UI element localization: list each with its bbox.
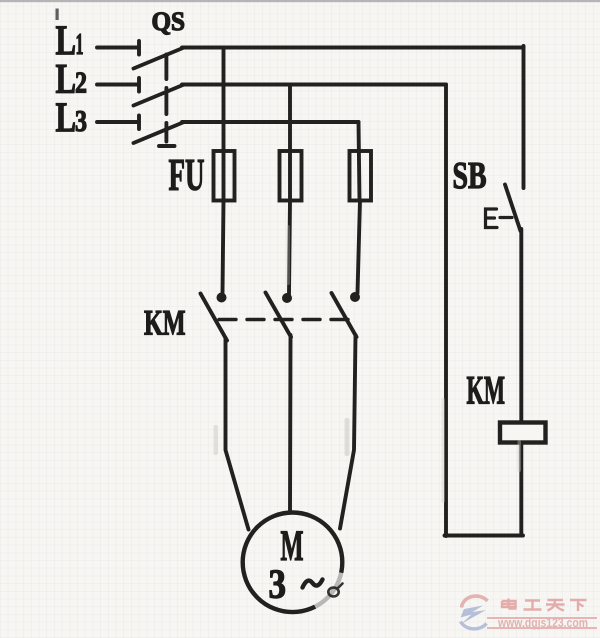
scan smudges (214, 225, 522, 503)
label L3 (56, 96, 88, 142)
wire fuse 3 to contact (358, 200, 361, 293)
wire contact 3 to motor (340, 335, 356, 529)
svg-text:FU: FU (169, 150, 205, 200)
fuse FU3 (350, 151, 372, 201)
wire L3 bus (182, 120, 359, 124)
KM main contact 1 terminal dot (217, 293, 227, 303)
QS blade pole 2 (134, 85, 185, 106)
wire contact 1 to motor (226, 338, 249, 530)
wire L2 feed (97, 83, 139, 87)
coil KM label (467, 368, 506, 413)
QS blade pole 3 (134, 122, 185, 143)
motor M (243, 513, 343, 613)
label L2 (56, 57, 88, 103)
svg-text:L: L (56, 96, 77, 142)
wire fuse 1 to contact (223, 200, 224, 293)
wire phase 2 drop to fuse (288, 85, 292, 201)
coil KM (500, 423, 546, 443)
KM main contact 3 blade (332, 293, 357, 337)
switch QS label (152, 7, 186, 36)
QS fixed contact L3 (137, 116, 141, 130)
label L1 (56, 19, 84, 65)
wire L2 bus drop (control left) (444, 85, 448, 537)
wire L1 feed (97, 46, 139, 50)
scan edge (0, 0, 600, 2)
KM main contact 3 terminal dot (350, 292, 360, 302)
wire fuse 2 to contact (289, 200, 290, 294)
button SB actuator (486, 209, 513, 228)
svg-text:www.dgjs123.com: www.dgjs123.com (497, 616, 588, 630)
watermark (461, 596, 598, 630)
wire phase 1 drop to fuse (222, 48, 226, 201)
svg-text:KM: KM (467, 368, 506, 413)
fuse FU label (169, 150, 205, 200)
QS fixed contact L1 (137, 41, 141, 55)
wire SB to coil (519, 229, 523, 535)
wire phase 3 drop to fuse (359, 122, 360, 200)
svg-text:2: 2 (75, 65, 87, 100)
button SB label (453, 155, 487, 197)
KM main contact 1 blade (201, 294, 228, 341)
wire L1 bus (182, 46, 524, 50)
svg-text:3: 3 (75, 103, 87, 138)
motor label ~ (303, 580, 323, 588)
speck artifact (328, 584, 342, 597)
svg-text:1: 1 (76, 26, 84, 61)
wire L1 bus drop to SB (522, 46, 526, 188)
svg-text:SB: SB (453, 155, 487, 197)
QS blade pole 1 (134, 48, 185, 69)
wire control bottom (445, 534, 524, 538)
QS linkage bar (159, 55, 175, 147)
motor letter M (281, 523, 304, 570)
QS fixed contact L2 (137, 78, 141, 92)
motor label 3 (269, 561, 287, 607)
KM contacts label (144, 303, 186, 343)
rim fade overlay (315, 573, 341, 607)
wire L2 bus (182, 83, 446, 87)
wire L3 feed (97, 120, 139, 124)
svg-text:3: 3 (269, 561, 287, 607)
KM contacts linkage dashed (219, 318, 352, 321)
button SB blade (505, 185, 521, 232)
fuse FU2 (280, 151, 302, 201)
KM main contact 2 blade (266, 293, 292, 338)
speck (56, 9, 59, 21)
wire contact 2 to motor (288, 335, 292, 511)
svg-text:KM: KM (144, 303, 186, 343)
svg-text:QS: QS (152, 7, 186, 36)
KM main contact 2 terminal dot (282, 293, 292, 303)
fuse FU1 (214, 151, 235, 201)
